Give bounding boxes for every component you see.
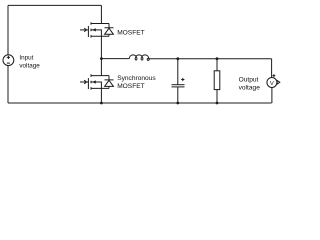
node: capacitor top junction: [176, 57, 179, 60]
wire: Q1 source to switch node and Q2 drain stub: [100, 36, 102, 75]
wire: top rail from input to Q1 drain: [8, 4, 101, 6]
node: switch node junction: [100, 57, 103, 60]
wire: switch node to inductor: [101, 58, 129, 60]
svg-text:Synchronous: Synchronous: [117, 75, 156, 82]
wire: Q1 drain stub: [100, 5, 102, 23]
resistor R1 (load): [214, 59, 220, 103]
svg-text:voltage: voltage: [239, 85, 261, 92]
node: resistor top junction: [216, 57, 219, 60]
svg-text:voltage: voltage: [19, 62, 40, 69]
wire: left vertical, top rail to input source: [7, 5, 9, 54]
label: Output voltage: [239, 77, 261, 92]
body diode D2 of Q2: [105, 76, 114, 89]
wire: inductor to output rail right corner: [149, 58, 272, 60]
svg-text:Output: Output: [239, 77, 259, 84]
wire: Q2 source stub to bottom rail: [100, 88, 102, 103]
body diode D1 of Q1: [105, 24, 114, 37]
label: Synchronous MOSFET: [117, 75, 156, 90]
label: Input voltage: [19, 54, 40, 69]
label: MOSFET: [117, 30, 144, 37]
wire: left vertical, input source to bottom rail: [7, 66, 9, 103]
voltage source V1 (input): [3, 55, 14, 66]
svg-text:V: V: [270, 81, 274, 87]
inductor L1: [129, 55, 149, 61]
wire: right vertical to voltmeter: [271, 59, 273, 78]
capacitor C1 (output, polarized): [172, 59, 185, 103]
svg-text:MOSFET: MOSFET: [117, 83, 144, 90]
transistor Q2 (synchronous MOSFET): [80, 74, 109, 89]
node: capacitor bottom junction: [176, 102, 179, 105]
label: V (voltmeter): [270, 81, 274, 87]
node: resistor bottom junction: [216, 102, 219, 105]
voltmeter M1 (output voltage): [267, 74, 280, 87]
svg-text:Input: Input: [19, 54, 33, 61]
wire: voltmeter to bottom rail: [271, 87, 273, 103]
transistor Q1 (high-side MOSFET): [80, 22, 109, 37]
node: Q2 source / bottom rail junction: [100, 102, 103, 105]
wire: bottom rail: [8, 102, 272, 104]
svg-text:MOSFET: MOSFET: [117, 30, 144, 37]
